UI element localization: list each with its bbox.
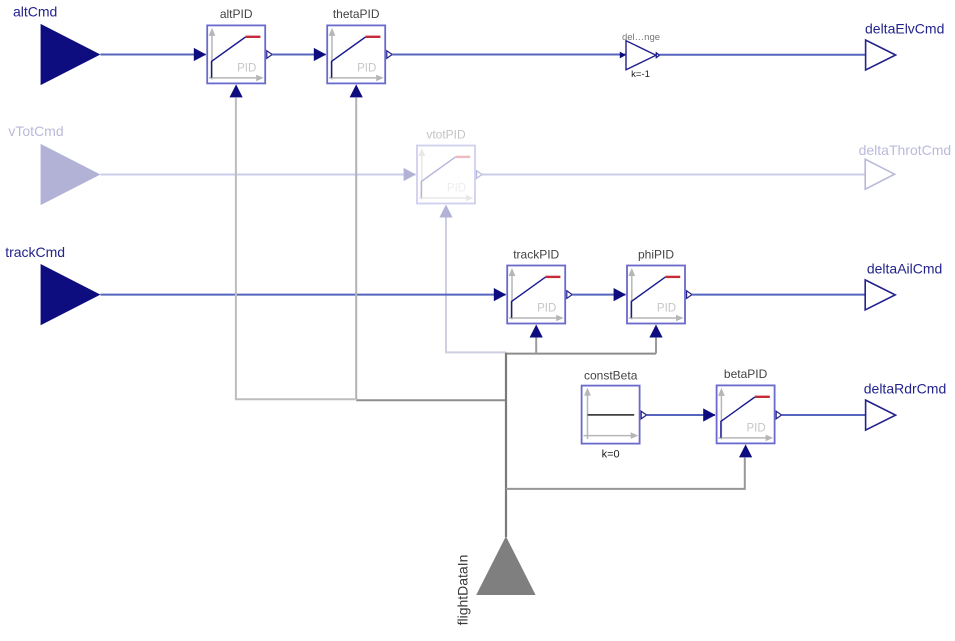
svg-text:vTotCmd: vTotCmd <box>8 123 63 139</box>
faded row: vTotCmd / vtotPID / deltaThrotCmd <box>8 123 951 352</box>
wire flightDataIn to vtotPID (feedback) <box>446 218 506 353</box>
block thetaPID <box>314 7 392 97</box>
output connector deltaRdrCmd <box>864 381 946 431</box>
input connector flightDataIn <box>455 536 536 625</box>
wire junction to trunk at y=400 <box>356 399 506 401</box>
svg-text:deltaAilCmd: deltaAilCmd <box>867 260 942 276</box>
svg-text:k=0: k=0 <box>602 449 620 461</box>
svg-text:vtotPID: vtotPID <box>426 127 466 141</box>
svg-text:del…nge: del…nge <box>622 32 660 43</box>
input connector altCmd <box>13 4 100 86</box>
wire gain to deltaElvCmd <box>659 54 865 56</box>
wire flightDataIn to thetaPID (feedback) <box>355 97 357 399</box>
wire vtotPID to deltaThrotCmd <box>482 174 865 176</box>
svg-text:k=-1: k=-1 <box>631 69 650 80</box>
wire flightDataIn to altPID (feedback) <box>236 97 356 399</box>
output connector deltaAilCmd <box>865 260 942 310</box>
wire branch y=489 to betaPID <box>506 457 745 489</box>
block altPID <box>194 7 272 97</box>
wire altCmd to altPID <box>100 54 205 56</box>
svg-text:phiPID: phiPID <box>638 247 674 261</box>
svg-text:altPID: altPID <box>220 7 253 21</box>
svg-text:deltaElvCmd: deltaElvCmd <box>865 21 944 37</box>
svg-text:constBeta: constBeta <box>584 369 638 383</box>
svg-text:trackPID: trackPID <box>513 247 559 261</box>
svg-text:thetaPID: thetaPID <box>333 7 380 21</box>
wire branch y=353.5 to trackPID and phiPID <box>506 353 656 355</box>
wire trunk from flightDataIn <box>505 353 507 537</box>
svg-text:flightDataIn: flightDataIn <box>455 555 471 626</box>
wire trackCmd to trackPID <box>100 294 505 296</box>
block constBeta k=0 <box>582 369 647 461</box>
svg-text:altCmd: altCmd <box>13 4 57 20</box>
svg-text:deltaRdrCmd: deltaRdrCmd <box>864 381 946 397</box>
output connector deltaThrotCmd <box>865 159 894 189</box>
block betaPID <box>703 367 781 457</box>
wire phiPID to deltaAilCmd <box>692 294 865 296</box>
svg-text:betaPID: betaPID <box>724 367 768 381</box>
block trackPID <box>494 247 572 337</box>
block phiPID <box>614 247 692 337</box>
block vtotPID <box>417 146 475 204</box>
wire vTotCmd to vtotPID <box>100 174 415 176</box>
output connector deltaElvCmd <box>865 21 944 70</box>
wire thetaPID to gain <box>392 54 626 56</box>
svg-text:deltaThrotCmd: deltaThrotCmd <box>859 142 952 158</box>
input connector trackCmd <box>5 244 100 325</box>
wire betaPID to deltaRdrCmd <box>781 414 865 416</box>
svg-text:trackCmd: trackCmd <box>5 244 65 260</box>
wire constBeta to betaPID <box>646 414 715 416</box>
input connector vTotCmd <box>41 144 101 205</box>
wire altPID to thetaPID <box>272 54 326 56</box>
gain deltaElvChange k=-1 <box>620 32 660 80</box>
wire trackPID to phiPID <box>572 294 626 296</box>
